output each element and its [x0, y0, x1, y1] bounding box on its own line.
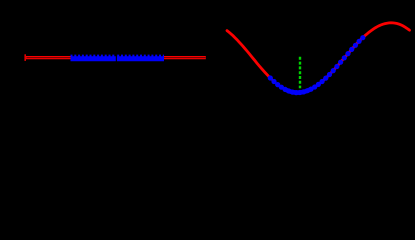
- left plot: blue dashed segment, left part solid band: [71, 56, 116, 61]
- right plot: red cosine curve right branch: [313, 23, 410, 88]
- left plot: end cap tick: [24, 54, 26, 61]
- left plot: dark core of right red segment: [164, 57, 206, 59]
- left plot: blue dashed crenellation top, left part: [71, 55, 116, 57]
- left plot: blue dashed crenellation top, right part: [117, 55, 164, 57]
- left plot: blue dashed segment, right part solid band: [117, 56, 164, 61]
- right plot: red cosine curve left branch: [227, 31, 272, 80]
- right plot: blue solid underlay at well bottom: [284, 89, 312, 93]
- right plot: blue dotted overlay curve: [268, 75, 273, 80]
- left plot: dark core of left red segment: [27, 57, 71, 59]
- left plot: flat potential line V=0, right red segment: [164, 56, 206, 59]
- right plot: green dashed vertical marker at minimum: [299, 57, 301, 88]
- left plot: flat potential line V=0, left red segment: [25, 56, 71, 59]
